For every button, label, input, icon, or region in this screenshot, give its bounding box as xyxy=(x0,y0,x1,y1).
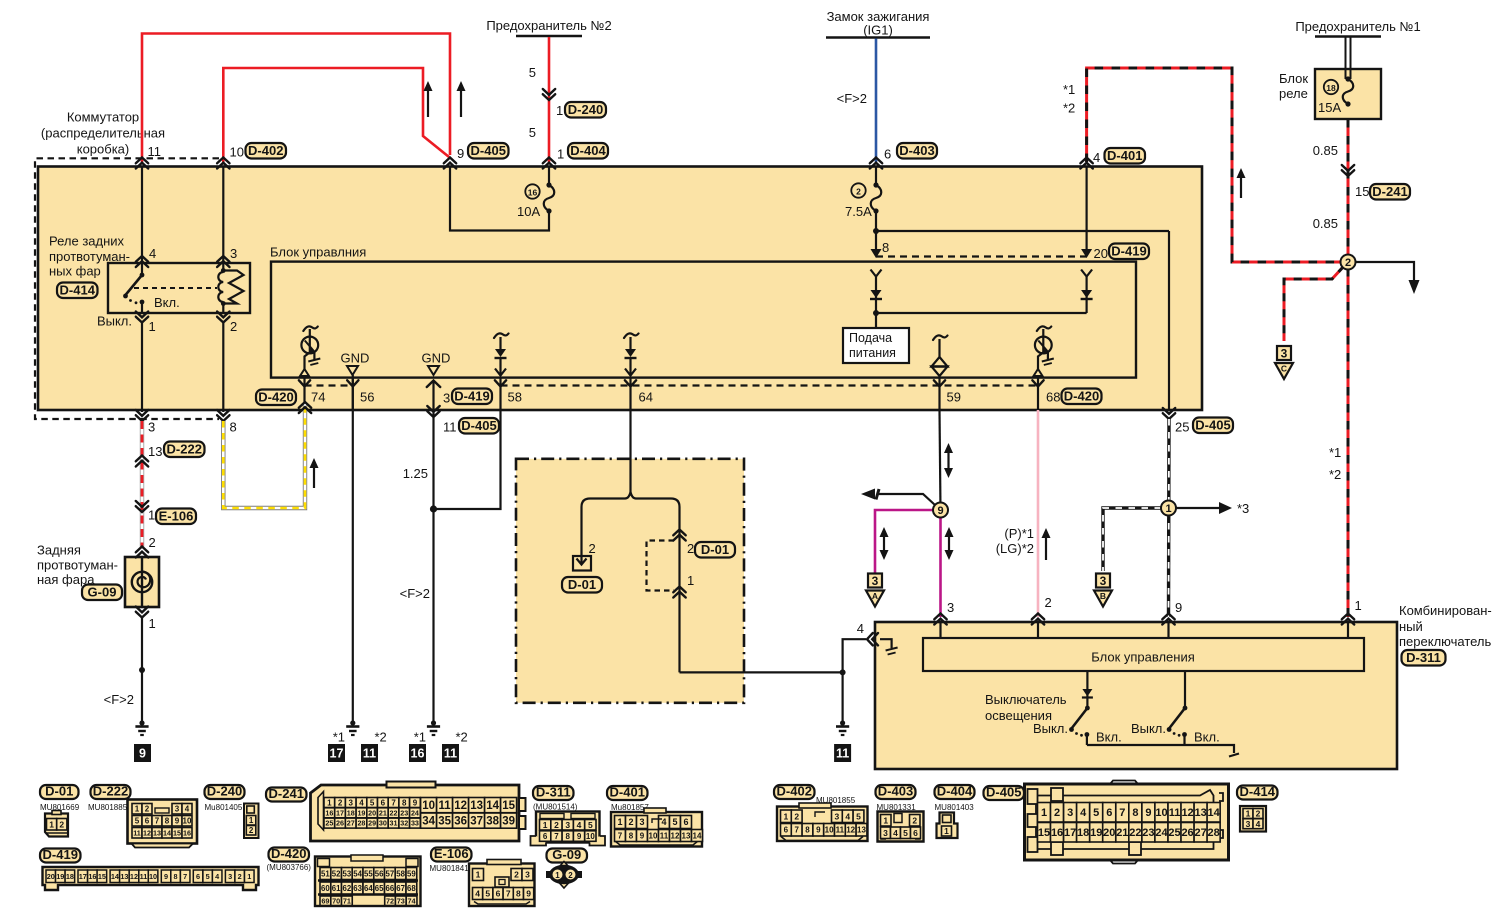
svg-text:29: 29 xyxy=(368,819,376,828)
svg-text:31: 31 xyxy=(390,819,398,828)
svg-text:11: 11 xyxy=(148,144,162,159)
svg-text:17: 17 xyxy=(79,872,87,881)
svg-text:4: 4 xyxy=(661,817,666,827)
svg-text:3: 3 xyxy=(565,820,570,830)
svg-text:D-240: D-240 xyxy=(207,783,242,798)
wire magenta to ground 3A xyxy=(875,510,933,573)
connector mark 1 D-240 xyxy=(543,89,555,100)
svg-text:58: 58 xyxy=(396,869,405,878)
wire to combination switch pin4 xyxy=(680,639,867,672)
svg-text:6: 6 xyxy=(784,826,789,835)
svg-text:Выкл.: Выкл. xyxy=(1033,721,1068,736)
svg-text:D-311: D-311 xyxy=(536,784,571,799)
svg-text:D-01: D-01 xyxy=(568,577,596,592)
connector D-405 body xyxy=(1025,784,1229,860)
ground 3C xyxy=(1277,346,1291,360)
svg-text:56: 56 xyxy=(360,390,374,405)
svg-text:Mu801405: Mu801405 xyxy=(205,803,243,812)
wire black right of junction 2 xyxy=(1348,262,1414,280)
label G-09 xyxy=(82,585,122,601)
connector D-240 label xyxy=(205,785,245,799)
svg-text:54: 54 xyxy=(353,869,362,878)
connector D-402 label xyxy=(774,785,815,799)
svg-text:9: 9 xyxy=(640,831,645,840)
svg-text:19: 19 xyxy=(357,808,365,817)
branch brace xyxy=(582,492,680,507)
svg-text:10: 10 xyxy=(586,832,595,841)
junction 1 xyxy=(1161,501,1176,516)
svg-text:17: 17 xyxy=(330,747,344,761)
wire relay pin2 down xyxy=(222,323,224,413)
svg-text:D-405: D-405 xyxy=(986,784,1021,799)
svg-text:64: 64 xyxy=(639,390,653,405)
svg-text:10: 10 xyxy=(1155,807,1167,819)
svg-text:1: 1 xyxy=(247,872,251,881)
svg-text:2: 2 xyxy=(1054,807,1060,819)
svg-text:3: 3 xyxy=(230,246,237,261)
svg-text:Комбинирован-: Комбинирован- xyxy=(1399,603,1492,618)
wire branch right xyxy=(678,507,680,672)
pin 20 D-419 arrow xyxy=(1081,249,1092,258)
svg-text:18: 18 xyxy=(1077,827,1089,839)
pin 58 arrow xyxy=(495,380,506,386)
svg-text:GND: GND xyxy=(341,351,370,366)
svg-text:*2: *2 xyxy=(456,730,468,745)
svg-text:1: 1 xyxy=(49,819,54,829)
svg-text:5: 5 xyxy=(1093,807,1099,819)
svg-text:15: 15 xyxy=(1038,827,1050,839)
relay pin 4 xyxy=(136,256,148,267)
svg-text:E-106: E-106 xyxy=(434,846,469,861)
svg-text:11: 11 xyxy=(439,800,452,812)
svg-text:10: 10 xyxy=(649,831,658,840)
pin 4 D-401 xyxy=(1080,158,1092,169)
wire fuse2 red xyxy=(548,37,551,162)
combination switch box (D-311) xyxy=(875,622,1397,769)
connector D-420 label xyxy=(269,848,310,862)
svg-text:30: 30 xyxy=(379,819,387,828)
svg-text:D-403: D-403 xyxy=(878,783,913,798)
svg-text:20: 20 xyxy=(368,808,376,817)
svg-text:26: 26 xyxy=(336,819,344,828)
wire pin58 stub xyxy=(499,377,501,410)
svg-text:5: 5 xyxy=(903,828,908,838)
svg-text:9: 9 xyxy=(139,747,146,761)
dashed junction-box boundary xyxy=(35,158,219,419)
svg-text:(MU801514): (MU801514) xyxy=(533,803,578,812)
svg-text:34: 34 xyxy=(422,816,435,828)
svg-text:4: 4 xyxy=(1080,807,1087,819)
svg-text:15: 15 xyxy=(173,828,181,837)
svg-text:61: 61 xyxy=(332,884,341,893)
wire pin58 down xyxy=(434,410,501,509)
wire pin10 to relay pin3 xyxy=(222,166,224,263)
svg-text:1: 1 xyxy=(1041,807,1047,819)
svg-text:2: 2 xyxy=(794,811,799,821)
svg-text:8: 8 xyxy=(516,889,521,899)
svg-text:39: 39 xyxy=(502,816,515,828)
svg-text:5: 5 xyxy=(485,889,490,899)
svg-text:3: 3 xyxy=(872,574,879,588)
svg-text:протвотуман-: протвотуман- xyxy=(37,558,118,573)
svg-text:2: 2 xyxy=(687,541,694,556)
svg-text:20: 20 xyxy=(47,872,55,881)
svg-text:GND: GND xyxy=(422,351,451,366)
svg-text:6: 6 xyxy=(913,828,918,838)
svg-text:2: 2 xyxy=(856,187,861,197)
svg-text:25: 25 xyxy=(1175,420,1189,435)
wire pink pin68 xyxy=(1037,410,1040,617)
switch common wire xyxy=(1087,745,1234,753)
rear fog lamp relay box xyxy=(108,263,250,313)
svg-text:D-241: D-241 xyxy=(269,786,304,801)
pin 9 D-405 xyxy=(444,158,456,169)
svg-text:11: 11 xyxy=(836,747,849,761)
connector line D-420 segment B xyxy=(501,384,1039,386)
diode symbol pin58 xyxy=(494,333,509,338)
svg-text:6: 6 xyxy=(543,832,548,841)
svg-text:D-241: D-241 xyxy=(1372,184,1407,199)
svg-text:73: 73 xyxy=(397,896,405,905)
svg-text:15: 15 xyxy=(1355,184,1369,199)
svg-text:19: 19 xyxy=(56,872,64,881)
signal arrow updown c xyxy=(948,535,950,552)
pin 1 D-01 xyxy=(673,587,685,598)
pin 1 D-311 xyxy=(1342,614,1354,625)
svg-text:2: 2 xyxy=(554,820,559,830)
svg-text:63: 63 xyxy=(353,884,362,893)
pin 25 D-405 xyxy=(1163,408,1175,419)
ground GND2 xyxy=(431,720,436,725)
relay pin 3 xyxy=(217,256,229,267)
pin 11 xyxy=(136,158,148,169)
transistor symbol pin68 xyxy=(1037,326,1052,331)
svg-text:Вкл.: Вкл. xyxy=(1096,730,1122,745)
svg-text:Коммутатор: Коммутатор xyxy=(67,110,139,125)
svg-text:20: 20 xyxy=(1094,246,1108,261)
svg-text:5: 5 xyxy=(856,811,861,821)
svg-text:4: 4 xyxy=(149,246,156,261)
svg-text:4: 4 xyxy=(185,805,190,814)
svg-text:5: 5 xyxy=(529,65,536,80)
relay switch xyxy=(141,263,143,274)
wire pin64 down xyxy=(629,410,631,492)
svg-text:10: 10 xyxy=(825,826,834,835)
svg-text:1: 1 xyxy=(555,871,560,880)
wire pin9 loop to fuse16 xyxy=(450,166,549,231)
svg-text:2: 2 xyxy=(568,871,573,880)
svg-text:<F>2: <F>2 xyxy=(837,91,867,106)
svg-text:22: 22 xyxy=(1129,827,1141,839)
svg-text:MU801403: MU801403 xyxy=(935,803,975,812)
svg-text:Вкл.: Вкл. xyxy=(1194,730,1220,745)
wire branch left arrow xyxy=(878,494,935,505)
svg-text:переключатель: переключатель xyxy=(1399,634,1492,649)
svg-text:14: 14 xyxy=(163,828,171,837)
svg-text:12: 12 xyxy=(671,831,680,840)
pin 2 D-311 xyxy=(1032,614,1044,625)
connector E-106 body xyxy=(469,864,535,907)
svg-text:8: 8 xyxy=(1132,807,1138,819)
connector D-419 label xyxy=(40,849,81,863)
svg-text:Реле задних: Реле задних xyxy=(49,234,125,249)
svg-text:Выключатель: Выключатель xyxy=(985,692,1067,707)
svg-text:10: 10 xyxy=(422,800,435,812)
relay dashed link xyxy=(134,287,217,289)
svg-text:8: 8 xyxy=(566,832,571,841)
svg-text:7: 7 xyxy=(794,826,799,835)
svg-text:протвотуман-: протвотуман- xyxy=(49,249,130,264)
svg-text:ных фар: ных фар xyxy=(49,264,101,279)
svg-text:1: 1 xyxy=(476,870,481,880)
svg-text:27: 27 xyxy=(347,819,355,828)
svg-text:16: 16 xyxy=(411,747,425,761)
ground GND1 xyxy=(350,720,355,725)
svg-text:21: 21 xyxy=(379,808,387,817)
connector E-106 label xyxy=(431,848,472,862)
svg-text:E-106: E-106 xyxy=(159,508,194,523)
svg-text:7: 7 xyxy=(506,889,511,899)
svg-text:52: 52 xyxy=(332,869,341,878)
svg-text:1: 1 xyxy=(149,319,156,334)
svg-text:3: 3 xyxy=(175,805,180,814)
pin 4 internal ground xyxy=(880,639,892,648)
svg-text:Вкл.: Вкл. xyxy=(154,295,180,310)
svg-text:ный: ный xyxy=(1399,619,1423,634)
wire fuse2 to pin25 horizontal xyxy=(876,230,1169,232)
connector D-419 body xyxy=(43,867,259,890)
svg-text:19: 19 xyxy=(1090,827,1102,839)
svg-text:10: 10 xyxy=(230,145,244,160)
svg-text:8: 8 xyxy=(882,240,889,255)
flow arrow up c xyxy=(1240,176,1242,198)
branch 20 chevron xyxy=(1081,270,1092,277)
connector D-404 body xyxy=(937,813,958,839)
svg-text:16: 16 xyxy=(325,808,333,817)
svg-text:65: 65 xyxy=(375,884,384,893)
wire red pin11 to pin9 xyxy=(142,34,450,163)
svg-text:*1: *1 xyxy=(1063,82,1075,97)
svg-text:10: 10 xyxy=(149,872,157,881)
svg-text:7: 7 xyxy=(618,831,623,840)
svg-text:D-414: D-414 xyxy=(60,282,96,297)
pin 68 arrow xyxy=(1032,380,1043,386)
wire pin25 vertical xyxy=(1168,231,1170,410)
signal arrow updown b xyxy=(883,535,885,552)
wire pin4 D401 down xyxy=(1085,166,1087,249)
svg-text:7: 7 xyxy=(554,832,559,841)
svg-text:74: 74 xyxy=(408,896,417,905)
junction dot fuse2 xyxy=(873,228,879,234)
connector D-241 body xyxy=(311,785,520,841)
junction dot pin4 ground xyxy=(840,669,846,675)
svg-text:21: 21 xyxy=(1116,827,1128,839)
svg-text:D-420: D-420 xyxy=(1064,388,1099,403)
svg-text:4: 4 xyxy=(577,820,582,830)
wire red-black to D-311 pin1 xyxy=(1347,262,1350,617)
wire red-black to ground 3C xyxy=(1284,266,1344,341)
svg-text:D-311: D-311 xyxy=(1406,650,1441,665)
switch 2 xyxy=(1184,671,1186,707)
svg-text:8: 8 xyxy=(629,831,634,840)
junction dot diode join xyxy=(873,310,879,316)
svg-text:3: 3 xyxy=(883,828,888,838)
svg-text:11: 11 xyxy=(443,420,457,435)
svg-text:2: 2 xyxy=(628,817,633,827)
svg-text:2: 2 xyxy=(1345,257,1351,269)
svg-text:14: 14 xyxy=(111,872,120,881)
svg-text:18: 18 xyxy=(1326,83,1336,93)
svg-text:8: 8 xyxy=(165,817,170,826)
svg-text:1: 1 xyxy=(1246,809,1251,819)
connector D-401 label xyxy=(607,786,648,800)
label D-01 left xyxy=(562,577,602,593)
lamp bulb xyxy=(141,557,143,607)
svg-text:*1: *1 xyxy=(333,730,345,745)
svg-text:8: 8 xyxy=(805,826,810,835)
svg-text:4: 4 xyxy=(857,621,864,636)
svg-text:9: 9 xyxy=(1175,600,1182,615)
svg-text:12: 12 xyxy=(1181,807,1193,819)
svg-text:59: 59 xyxy=(947,390,961,405)
pin 74 arrow xyxy=(299,380,310,386)
svg-text:D-240: D-240 xyxy=(568,102,603,117)
connector D-01 label xyxy=(40,785,79,799)
pin 3 D-419 passthrough xyxy=(427,381,440,388)
svg-text:9: 9 xyxy=(457,146,464,161)
wire pin68 stub xyxy=(1037,377,1039,410)
svg-text:9: 9 xyxy=(577,832,582,841)
svg-text:MU801885: MU801885 xyxy=(88,803,128,812)
connector D-403 body xyxy=(878,812,924,842)
connector mark 15 D-241 xyxy=(1342,165,1354,176)
svg-text:4: 4 xyxy=(845,811,850,821)
wire GND2 down xyxy=(432,417,434,722)
svg-text:5: 5 xyxy=(672,817,677,827)
svg-text:15: 15 xyxy=(98,872,106,881)
connector D-241 label xyxy=(266,788,307,802)
label D-311 xyxy=(1402,650,1446,666)
flow arrow up e xyxy=(1045,536,1047,560)
wire magenta to pin3 xyxy=(939,517,942,617)
svg-text:1: 1 xyxy=(543,820,548,830)
wire D-311 pin1 internal xyxy=(1347,622,1349,638)
svg-text:14: 14 xyxy=(693,831,702,840)
svg-text:17: 17 xyxy=(336,808,344,817)
svg-text:*2: *2 xyxy=(1329,467,1341,482)
svg-text:11: 11 xyxy=(836,826,845,835)
svg-text:57: 57 xyxy=(386,869,395,878)
svg-text:(P)*1: (P)*1 xyxy=(1004,526,1034,541)
connector D-420 body xyxy=(315,857,421,907)
svg-text:11: 11 xyxy=(1169,807,1181,819)
svg-text:22: 22 xyxy=(390,808,398,817)
svg-text:16: 16 xyxy=(88,872,96,881)
svg-text:68: 68 xyxy=(407,884,416,893)
wire black-white pin25 xyxy=(1167,419,1171,617)
optional-equipment dash-dot box xyxy=(516,459,744,703)
ground pin4 xyxy=(840,720,845,725)
wire gray-yellow loop xyxy=(223,403,305,508)
connector dashed box D-01 xyxy=(647,541,675,591)
svg-text:28: 28 xyxy=(1208,827,1220,839)
fuse 2 7.5A xyxy=(851,183,865,197)
svg-text:55: 55 xyxy=(364,869,373,878)
svg-text:1: 1 xyxy=(557,147,564,162)
branch 8 diode xyxy=(871,290,882,298)
wire GND1 down xyxy=(352,410,354,722)
svg-text:9: 9 xyxy=(164,872,168,881)
svg-text:*3: *3 xyxy=(1237,501,1249,516)
svg-text:D-404: D-404 xyxy=(570,143,606,158)
svg-text:D-01: D-01 xyxy=(701,542,729,557)
svg-text:18: 18 xyxy=(347,808,355,817)
svg-text:1: 1 xyxy=(148,508,155,523)
svg-text:1: 1 xyxy=(135,805,140,814)
pin 4 D-311 xyxy=(867,633,878,645)
svg-text:1: 1 xyxy=(149,616,156,631)
connector D-311 body xyxy=(536,812,600,843)
pin 8 bottom xyxy=(217,410,229,421)
svg-text:9: 9 xyxy=(1145,807,1151,819)
svg-text:68: 68 xyxy=(1046,390,1060,405)
svg-text:D-01: D-01 xyxy=(45,783,73,798)
pin 2 D-01 xyxy=(673,530,685,541)
wire black-white to ground 3B xyxy=(1103,508,1161,571)
svg-text:14: 14 xyxy=(1208,807,1221,819)
svg-text:13: 13 xyxy=(153,828,161,837)
svg-text:(IG1): (IG1) xyxy=(863,23,893,38)
svg-text:24: 24 xyxy=(411,808,419,817)
svg-text:C: C xyxy=(1281,364,1287,374)
svg-text:8: 8 xyxy=(230,420,237,435)
svg-text:6: 6 xyxy=(145,817,150,826)
connector D-414 body xyxy=(1240,806,1266,832)
svg-text:D-405: D-405 xyxy=(461,418,496,433)
connector D-01 body xyxy=(45,814,68,837)
svg-text:3: 3 xyxy=(1246,819,1251,829)
pin 1 D-404 xyxy=(543,158,555,169)
svg-text:38: 38 xyxy=(486,816,499,828)
relay pin 1 xyxy=(136,312,148,323)
svg-text:58: 58 xyxy=(508,390,522,405)
pin 10 D-402 xyxy=(217,158,229,169)
svg-text:2: 2 xyxy=(338,798,343,807)
svg-text:72: 72 xyxy=(386,896,394,905)
wire red-white rear fog feed xyxy=(140,421,144,548)
svg-text:3: 3 xyxy=(639,817,644,827)
svg-text:14: 14 xyxy=(486,800,499,812)
svg-text:D-419: D-419 xyxy=(43,847,78,862)
svg-text:D-401: D-401 xyxy=(1107,148,1142,163)
connector D-403 label xyxy=(876,785,916,799)
svg-text:2: 2 xyxy=(149,535,156,550)
flow arrow up b xyxy=(460,89,462,117)
svg-text:D-420: D-420 xyxy=(258,389,293,404)
svg-text:Предохранитель №1: Предохранитель №1 xyxy=(1295,19,1420,34)
svg-text:9: 9 xyxy=(413,798,418,807)
control unit box (Блок управлния) xyxy=(271,262,1136,378)
fuse 16 10A xyxy=(525,184,539,198)
svg-text:4: 4 xyxy=(893,828,898,838)
ground 3B xyxy=(1096,574,1110,588)
svg-text:74: 74 xyxy=(311,390,325,405)
wire red-black dashed from relay block xyxy=(1347,119,1350,262)
svg-text:4: 4 xyxy=(359,798,364,807)
flow arrow up a xyxy=(427,89,429,117)
svg-text:D-402: D-402 xyxy=(777,783,812,798)
svg-text:25: 25 xyxy=(325,819,333,828)
